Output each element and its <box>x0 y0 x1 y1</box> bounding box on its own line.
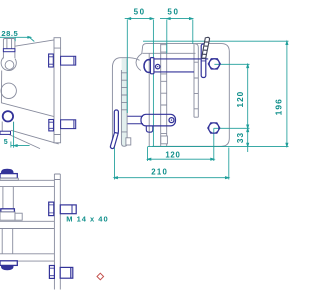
svg-text:120: 120 <box>165 150 180 159</box>
front rail rungs <box>161 45 167 141</box>
lug boss outer arc <box>1 58 16 71</box>
dim 120 bottom line <box>148 158 215 160</box>
side bottom bolt head line <box>73 120 75 129</box>
middle rail bottom cap <box>121 140 127 146</box>
wedge top edge <box>15 40 54 46</box>
bottom view plate <box>54 174 60 290</box>
bottom view washer tab <box>15 213 22 220</box>
bottom view top bolt <box>60 205 76 214</box>
lug slot lines <box>7 39 12 49</box>
bottom view top carriage dome <box>2 169 14 173</box>
bottom view bottom bolt head line <box>70 267 72 278</box>
side plate <box>54 38 61 143</box>
capsule lower hook <box>146 126 153 132</box>
bottom pin shaft <box>128 116 144 123</box>
middle rail foot <box>126 138 131 145</box>
ladder column B <box>194 44 198 117</box>
extension bolt center vertical <box>148 128 214 161</box>
extension line plate bottom <box>148 146 289 148</box>
svg-text:M 14 x 40: M 14 x 40 <box>66 215 108 224</box>
dim 50 first line <box>125 18 154 20</box>
side top nut <box>49 54 54 67</box>
front rails verticals <box>149 44 167 147</box>
wedge lower edge outer <box>9 134 40 148</box>
middle rail ladder columns <box>121 59 127 141</box>
bottom view bottom bar <box>0 254 54 261</box>
bottom pin capsule <box>141 114 176 126</box>
dim 120 vertical line <box>247 64 249 128</box>
lug pin band <box>3 49 15 52</box>
dim 28.5 line <box>0 36 31 38</box>
side bottom nut <box>49 120 54 131</box>
side plate segment lines <box>54 48 61 134</box>
middle rail ladder tint band <box>122 58 128 146</box>
top hex bolt <box>208 59 220 69</box>
bushing cylinder sides <box>2 122 13 132</box>
middle rail outline <box>112 58 139 147</box>
ladder column B rungs <box>194 62 198 109</box>
svg-text:28.5: 28.5 <box>1 29 18 38</box>
svg-text:196: 196 <box>273 98 283 115</box>
wedge lower edge inner <box>11 130 59 144</box>
bottom view bottom cap <box>0 261 17 266</box>
wedge left edge <box>1 71 54 117</box>
bottom view washer <box>0 212 15 220</box>
latch bar <box>201 44 206 78</box>
extension hex bottom <box>214 127 250 129</box>
bottom view middle bar <box>0 221 54 228</box>
bottom view bottom nut <box>49 266 54 279</box>
svg-text:50: 50 <box>167 8 179 17</box>
middle rail rungs <box>121 73 127 132</box>
red diamond mark <box>97 273 104 280</box>
dimension lines teal <box>0 18 289 180</box>
dim 5 line <box>11 145 30 147</box>
dim 5 extension <box>11 122 14 148</box>
svg-text:120: 120 <box>236 91 245 108</box>
bottom pin hole circle <box>169 118 174 123</box>
bottom view bottom bolt <box>60 267 73 278</box>
bottom hex bolt <box>208 123 220 133</box>
front rail foot <box>161 136 168 144</box>
front plate outline <box>136 44 229 147</box>
bottom view top underplate <box>0 178 18 180</box>
side top bolt <box>61 56 76 65</box>
big hole <box>1 83 16 98</box>
extension lines top <box>127 20 193 147</box>
bottom view bushing sides <box>2 229 13 254</box>
mid-rail latch foot <box>110 133 118 149</box>
front plate left ear <box>136 48 143 71</box>
dim 50 second line <box>160 18 193 20</box>
bushing bottom cap <box>0 131 11 134</box>
top pin shaft <box>154 59 209 72</box>
dim 33 line <box>247 128 249 152</box>
bottom view rod <box>3 187 13 209</box>
bottom view top bar <box>0 180 54 186</box>
top pin hole circle <box>156 64 160 68</box>
svg-text:5: 5 <box>4 139 8 146</box>
extension 210 <box>115 148 229 180</box>
dim 196 line <box>286 41 288 146</box>
bottom view rod nut <box>1 209 15 212</box>
bushing ring <box>3 111 13 121</box>
top pin head capsule <box>150 58 154 74</box>
extension hex top <box>214 63 249 65</box>
lever handle striped <box>202 37 210 58</box>
svg-text:33: 33 <box>236 132 245 143</box>
lug hole <box>5 61 14 70</box>
dim 210 line <box>114 177 229 179</box>
top pin lynch ring <box>144 60 154 73</box>
bottom view top nut <box>49 202 54 216</box>
svg-text:210: 210 <box>151 167 168 176</box>
extension line plate top <box>143 40 289 42</box>
mid-rail latch bar <box>114 110 118 134</box>
svg-text:50: 50 <box>134 8 146 17</box>
bottom view top flange <box>0 174 17 179</box>
front boss top edge <box>143 52 196 54</box>
bottom view top bolt head line <box>71 205 73 214</box>
side top bolt head line <box>73 56 75 65</box>
lug outline <box>3 39 15 59</box>
side view wedge body <box>1 39 59 149</box>
side bottom bolt <box>61 120 76 129</box>
latch bar band <box>201 59 206 61</box>
